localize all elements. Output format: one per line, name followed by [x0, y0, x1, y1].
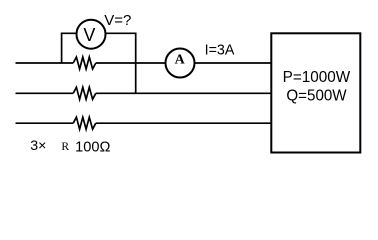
svg-text:I=3A: I=3A [205, 43, 235, 59]
wire phase L1 right segment (ammeter to load box) [195, 62, 271, 64]
wire phase L2 right segment (resistor to load box) [96, 92, 271, 94]
svg-text:V: V [83, 25, 95, 45]
wire voltmeter left tap vertical (node on L1) [62, 33, 77, 63]
ammeter A1 [166, 49, 195, 78]
svg-text:V=?: V=? [104, 12, 131, 29]
wire phase L2 left segment [16, 92, 74, 94]
wire phase L3 left segment [16, 122, 74, 124]
resistor R (phase L2) [73, 87, 96, 99]
voltmeter V1 [77, 20, 106, 49]
svg-text:A: A [175, 53, 186, 68]
svg-text:100Ω: 100Ω [75, 139, 110, 155]
svg-text:3×: 3× [30, 138, 46, 154]
wire phase L1 left segment [16, 62, 74, 64]
wire phase L1 middle segment (resistor to ammeter) [96, 62, 165, 64]
wire phase L3 right segment (resistor to load box) [96, 122, 271, 124]
wire voltmeter right branch to phase L2 [105, 33, 135, 93]
svg-text:R: R [61, 140, 69, 153]
svg-text:Q=500W: Q=500W [286, 88, 347, 105]
svg-text:P=1000W: P=1000W [283, 69, 351, 86]
resistor R (phase L1) [73, 57, 96, 69]
load box [271, 33, 360, 152]
resistor R (phase L3) [73, 117, 96, 129]
